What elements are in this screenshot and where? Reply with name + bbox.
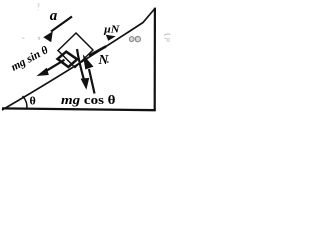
svg-text:N: N [98, 52, 110, 67]
svg-text:a: a [50, 8, 58, 24]
svg-text:mg cos θ: mg cos θ [61, 92, 116, 107]
svg-text:θ: θ [30, 94, 36, 108]
svg-text:μN: μN [103, 24, 120, 36]
